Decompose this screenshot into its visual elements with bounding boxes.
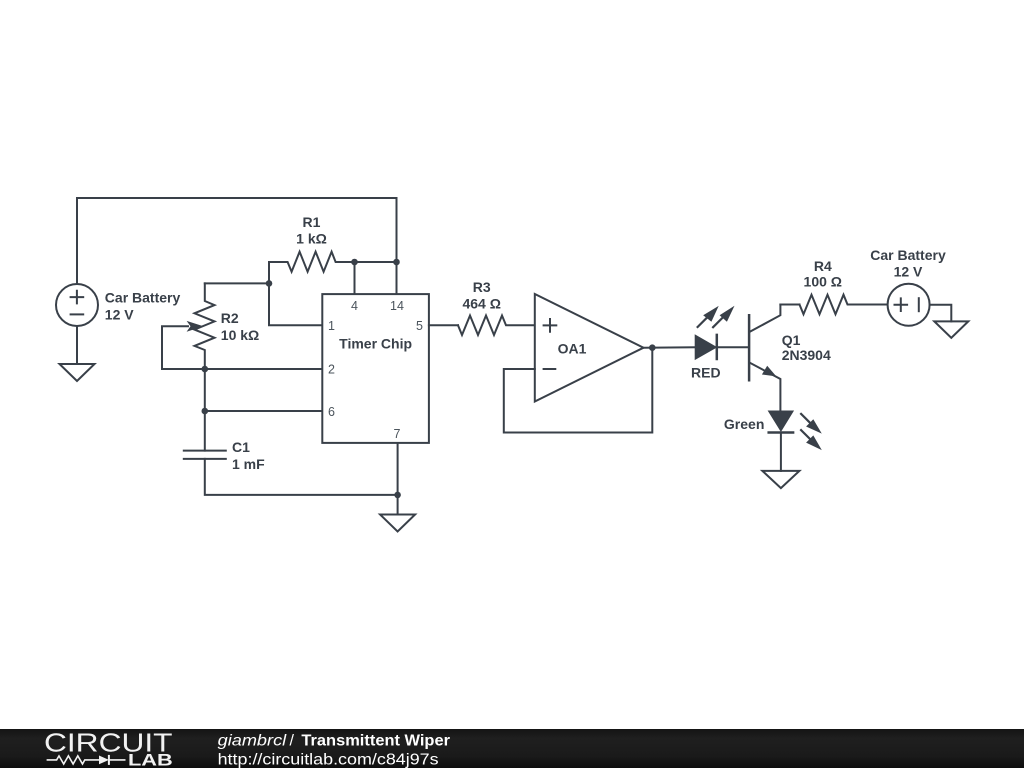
junction node pin2	[202, 366, 209, 373]
pin 1	[328, 319, 335, 333]
resistor R3	[458, 316, 535, 336]
svg-text:1 mF: 1 mF	[232, 456, 265, 472]
svg-text:LAB: LAB	[128, 752, 173, 768]
wire R2 bottom down to pin-6 node	[204, 369, 206, 411]
LED D2 Green	[769, 412, 822, 451]
wire feedback loop	[504, 348, 653, 433]
timer chip U1	[322, 294, 429, 443]
label V2 Car Battery 12 V	[870, 247, 946, 279]
footer logo CIRCUIT	[44, 728, 173, 758]
label Green	[724, 416, 764, 432]
junction node OA1 output	[649, 344, 656, 351]
resistor R4	[800, 295, 888, 315]
svg-text:R2: R2	[221, 310, 239, 326]
pin 2	[328, 363, 335, 377]
svg-text:6: 6	[328, 405, 335, 419]
wire pin 14 drop	[396, 262, 398, 294]
svg-text:10 kΩ: 10 kΩ	[221, 327, 259, 343]
svg-text:R4: R4	[814, 258, 832, 274]
svg-text:464 Ω: 464 Ω	[462, 296, 500, 312]
wire R2 top to junction	[205, 282, 269, 284]
svg-text:2: 2	[328, 363, 335, 377]
svg-text:Q1: Q1	[782, 332, 801, 348]
label C1 value	[232, 439, 265, 472]
junction node pin14 rail	[393, 259, 400, 266]
wire pin 7 to ground	[397, 443, 399, 515]
label R4 value	[804, 258, 842, 290]
wire Q1 collector to R4	[780, 304, 799, 306]
wire C1 bottom to pin 7 node	[205, 459, 398, 495]
op-amp OA1	[535, 294, 644, 402]
wire OA1 output	[644, 346, 696, 348]
pin 6	[328, 405, 335, 419]
wire D1 to Q1 base	[717, 346, 748, 348]
label R2 value	[221, 310, 259, 343]
wire pin 4 drop	[354, 262, 356, 294]
ground G4 under D2	[762, 471, 799, 488]
svg-text:1 kΩ: 1 kΩ	[296, 230, 327, 246]
svg-text:7: 7	[394, 427, 401, 441]
pin 14	[390, 299, 404, 313]
capacitor C1	[184, 451, 226, 459]
wire V2 to ground	[930, 305, 952, 322]
svg-text:Car Battery: Car Battery	[105, 290, 181, 306]
pin 5	[416, 319, 423, 333]
svg-text:R1: R1	[303, 214, 321, 230]
wire pin 6	[205, 410, 322, 412]
footer logo LAB	[128, 752, 173, 768]
svg-text:/: /	[290, 732, 295, 749]
wire pin 5 to R3	[429, 324, 458, 326]
pin 4	[351, 299, 358, 313]
junction node R1 left / R2 top	[266, 280, 273, 287]
label OA1	[558, 341, 587, 357]
label R1 value	[296, 214, 327, 246]
wire pin 2	[205, 368, 322, 370]
transistor Q1	[749, 305, 780, 412]
wire R1 right to node	[355, 261, 397, 263]
LED D1 RED	[696, 306, 735, 359]
junction node R1-pin4	[351, 259, 358, 266]
svg-text:12 V: 12 V	[105, 307, 134, 323]
svg-text:RED: RED	[691, 365, 721, 381]
svg-text:4: 4	[351, 299, 358, 313]
ground G1 under V1	[60, 364, 95, 381]
wire R1 left down to pin 1	[269, 262, 322, 325]
label V1 Car Battery 12 V	[105, 290, 181, 323]
pin 7	[394, 427, 401, 441]
svg-text:2N3904: 2N3904	[782, 347, 831, 363]
label R3 value	[462, 279, 500, 311]
footer bar	[0, 729, 1024, 768]
wire top rail from V1 plus to pin 14	[77, 198, 397, 284]
svg-text:1: 1	[328, 319, 335, 333]
svg-text:http://circuitlab.com/c84j97s: http://circuitlab.com/c84j97s	[218, 751, 439, 768]
potentiometer R2	[162, 283, 215, 369]
svg-text:Transmittent Wiper: Transmittent Wiper	[301, 732, 450, 749]
svg-text:OA1: OA1	[558, 341, 587, 357]
label timer chip	[339, 336, 412, 352]
ground G2 under timer chip	[380, 515, 415, 532]
svg-text:Timer Chip: Timer Chip	[339, 336, 412, 352]
svg-text:100 Ω: 100 Ω	[804, 274, 842, 290]
label RED	[691, 365, 721, 381]
voltage source V1	[56, 284, 98, 326]
svg-text:R3: R3	[473, 279, 491, 295]
junction node pin7-C1	[394, 492, 401, 499]
footer title text	[218, 732, 450, 749]
voltage source V2	[888, 284, 930, 326]
wire V1 minus to ground	[76, 326, 78, 364]
wire D2 to ground	[780, 433, 782, 471]
label Q1 2N3904	[782, 332, 831, 363]
svg-text:14: 14	[390, 299, 404, 313]
svg-text:Green: Green	[724, 416, 764, 432]
svg-text:Car Battery: Car Battery	[870, 247, 946, 263]
junction node pin6	[202, 408, 209, 415]
ground G3 near V2	[934, 321, 968, 337]
resistor R1	[269, 252, 355, 272]
svg-text:C1: C1	[232, 439, 250, 455]
footer logo resistor-diode glyph	[47, 755, 126, 765]
svg-text:giambrcl: giambrcl	[218, 732, 287, 749]
svg-text:5: 5	[416, 319, 423, 333]
svg-text:12 V: 12 V	[894, 263, 923, 279]
footer url text	[218, 751, 439, 768]
wire node to C1 top	[204, 411, 206, 451]
